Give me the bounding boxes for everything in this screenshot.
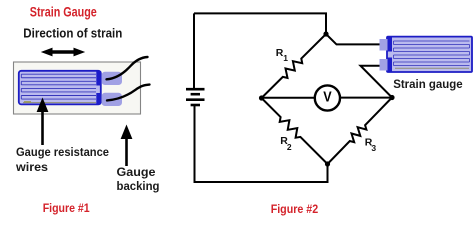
svg-text:Gauge resistance: Gauge resistance	[16, 145, 109, 159]
svg-text:backing: backing	[117, 179, 160, 193]
svg-text:Figure #2: Figure #2	[271, 202, 319, 216]
svg-text:V: V	[323, 89, 332, 105]
svg-text:Strain gauge: Strain gauge	[393, 77, 463, 91]
svg-text:1: 1	[283, 53, 288, 63]
svg-text:Figure #1: Figure #1	[43, 201, 90, 215]
svg-text:Strain Gauge: Strain Gauge	[30, 4, 97, 19]
svg-text:2: 2	[287, 142, 292, 152]
svg-text:3: 3	[371, 143, 376, 153]
svg-text:Direction of strain: Direction of strain	[23, 26, 122, 40]
svg-text:Gauge: Gauge	[117, 165, 156, 179]
svg-text:wires: wires	[15, 160, 48, 174]
